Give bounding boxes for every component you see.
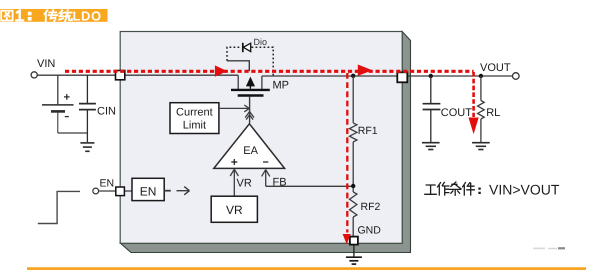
Dio label — [254, 37, 268, 47]
body arrow (points up) — [249, 85, 251, 89]
EA label — [243, 145, 258, 157]
FB net label — [273, 176, 287, 188]
capacitor CIN — [79, 75, 96, 142]
node COUT junction — [429, 74, 433, 78]
operating condition note 工作条件：VIN>VOUT — [425, 182, 480, 195]
VOUT label — [480, 62, 511, 74]
svg-text:Current: Current — [176, 106, 213, 118]
svg-text:EN: EN — [100, 178, 115, 190]
red arrow before VOUT pin — [358, 65, 373, 76]
resistor RF2 — [350, 192, 357, 217]
svg-text:RF1: RF1 — [358, 125, 378, 137]
VR net label — [237, 178, 252, 190]
bottom orange rule — [27, 267, 586, 270]
wire gate to EA output — [249, 97, 251, 124]
wire diode tap (solid elbow to VIN rail) — [227, 61, 249, 71]
diode Dio — [243, 43, 251, 52]
作 — [438, 182, 449, 195]
RF1 label — [358, 125, 378, 137]
svg-text:MP: MP — [273, 80, 290, 92]
IC body face — [120, 32, 402, 244]
EN block — [132, 178, 164, 200]
EN terminal circle — [93, 188, 99, 194]
条 — [450, 182, 461, 195]
resistor RF1 — [350, 123, 357, 142]
minus mark — [65, 116, 69, 118]
red load current arrow (down at RL) — [469, 118, 479, 135]
wire FB to EA - (arrow up) — [262, 170, 354, 187]
传 — [45, 10, 58, 21]
op-amp EA (error amplifier) — [214, 124, 285, 169]
wire VR to EA + (arrow up) — [230, 169, 238, 196]
wire GND pin to ground — [353, 245, 355, 257]
svg-text:FB: FB — [273, 176, 287, 188]
MP label — [273, 80, 290, 92]
COUT label — [441, 107, 472, 119]
svg-text:EN: EN — [140, 185, 157, 199]
wire drain vertical — [261, 76, 263, 89]
wire VOUT rail (drain to VOUT terminal) — [262, 75, 513, 77]
node VIN-rail / divider junction — [351, 74, 355, 78]
enable step waveform — [38, 191, 80, 223]
red current path horizontal (dashed) — [65, 70, 474, 73]
VIN terminal circle — [31, 72, 37, 78]
EA - input mark — [263, 161, 268, 163]
red current path vertical to load (dashed) — [472, 72, 475, 117]
current limit block — [170, 103, 219, 134]
capacitor COUT — [423, 76, 441, 142]
port square GND pin — [350, 237, 358, 245]
resistor RL — [478, 76, 485, 142]
node FB junction — [351, 184, 355, 188]
svg-text:COUT: COUT — [441, 107, 472, 119]
wire EN block output dash — [164, 190, 171, 192]
port square EN pin — [116, 187, 125, 196]
svg-text:VIN: VIN — [37, 58, 55, 70]
svg-text:EA: EA — [243, 145, 258, 157]
wire battery to CIN bottom — [58, 132, 88, 134]
ground (RL) — [472, 143, 490, 150]
ground (GND pin, below IC) — [346, 257, 362, 264]
svg-text:VOUT: VOUT — [480, 62, 511, 74]
图 — [1, 11, 12, 21]
RL label — [486, 107, 500, 119]
： — [28, 14, 32, 19]
wire EN terminal to port — [99, 190, 132, 192]
plus mark — [64, 94, 70, 100]
VIN label — [37, 58, 55, 70]
gate bar — [238, 94, 264, 96]
RF2 label — [361, 201, 381, 213]
chevron on gate wire (points up) — [245, 112, 254, 120]
port square VIN pin — [116, 71, 125, 80]
wire source vertical — [237, 75, 239, 89]
： — [478, 189, 480, 193]
工 — [425, 185, 436, 194]
figure title bar — [0, 9, 108, 22]
transistor MP (PMOS pass element) — [231, 75, 270, 95]
channel bar — [231, 89, 270, 91]
件 — [463, 183, 475, 195]
svg-text:RL: RL — [486, 107, 500, 119]
ground (input side) — [80, 143, 94, 151]
diode Dio dashed enclosure — [227, 47, 273, 75]
VOUT terminal circle — [513, 73, 520, 80]
EN label (net) — [100, 178, 115, 190]
red current path vertical through divider (dashed) — [346, 73, 348, 233]
svg-text:Limit: Limit — [183, 120, 206, 132]
wire battery branch — [57, 75, 59, 104]
figure title text 图1：传统LDO (drawn glyphs) — [1, 10, 72, 21]
wire VIN rail (left, VIN terminal to pass transistor) — [37, 74, 238, 76]
svg-text:VR: VR — [237, 178, 252, 190]
统 — [59, 10, 72, 21]
battery (input source) — [42, 94, 74, 133]
ground (COUT) — [422, 143, 440, 150]
voltage reference VR block — [211, 196, 257, 222]
wire current limit to gate (with arrowhead) — [219, 105, 249, 112]
svg-text:VR: VR — [226, 203, 243, 217]
node RL junction — [479, 74, 483, 78]
port square VOUT pin — [397, 72, 407, 82]
CIN label — [97, 106, 116, 118]
svg-text:LDO: LDO — [73, 9, 102, 24]
svg-text:VIN>VOUT: VIN>VOUT — [489, 181, 560, 197]
svg-text:RF2: RF2 — [361, 201, 381, 213]
EA + input mark — [231, 159, 237, 165]
svg-text:Dio: Dio — [254, 37, 268, 47]
red arrow on VIN rail — [215, 65, 227, 76]
1 — [16, 11, 23, 21]
IC body 3D side — [121, 32, 411, 253]
GND net label — [358, 225, 382, 237]
svg-text:CIN: CIN — [97, 106, 116, 118]
watermark remnant — [533, 247, 565, 249]
arrow EN output — [177, 187, 190, 195]
wire feedback divider vertical — [352, 76, 354, 237]
red arrow to GND pin — [343, 234, 351, 244]
svg-text:GND: GND — [358, 225, 382, 237]
